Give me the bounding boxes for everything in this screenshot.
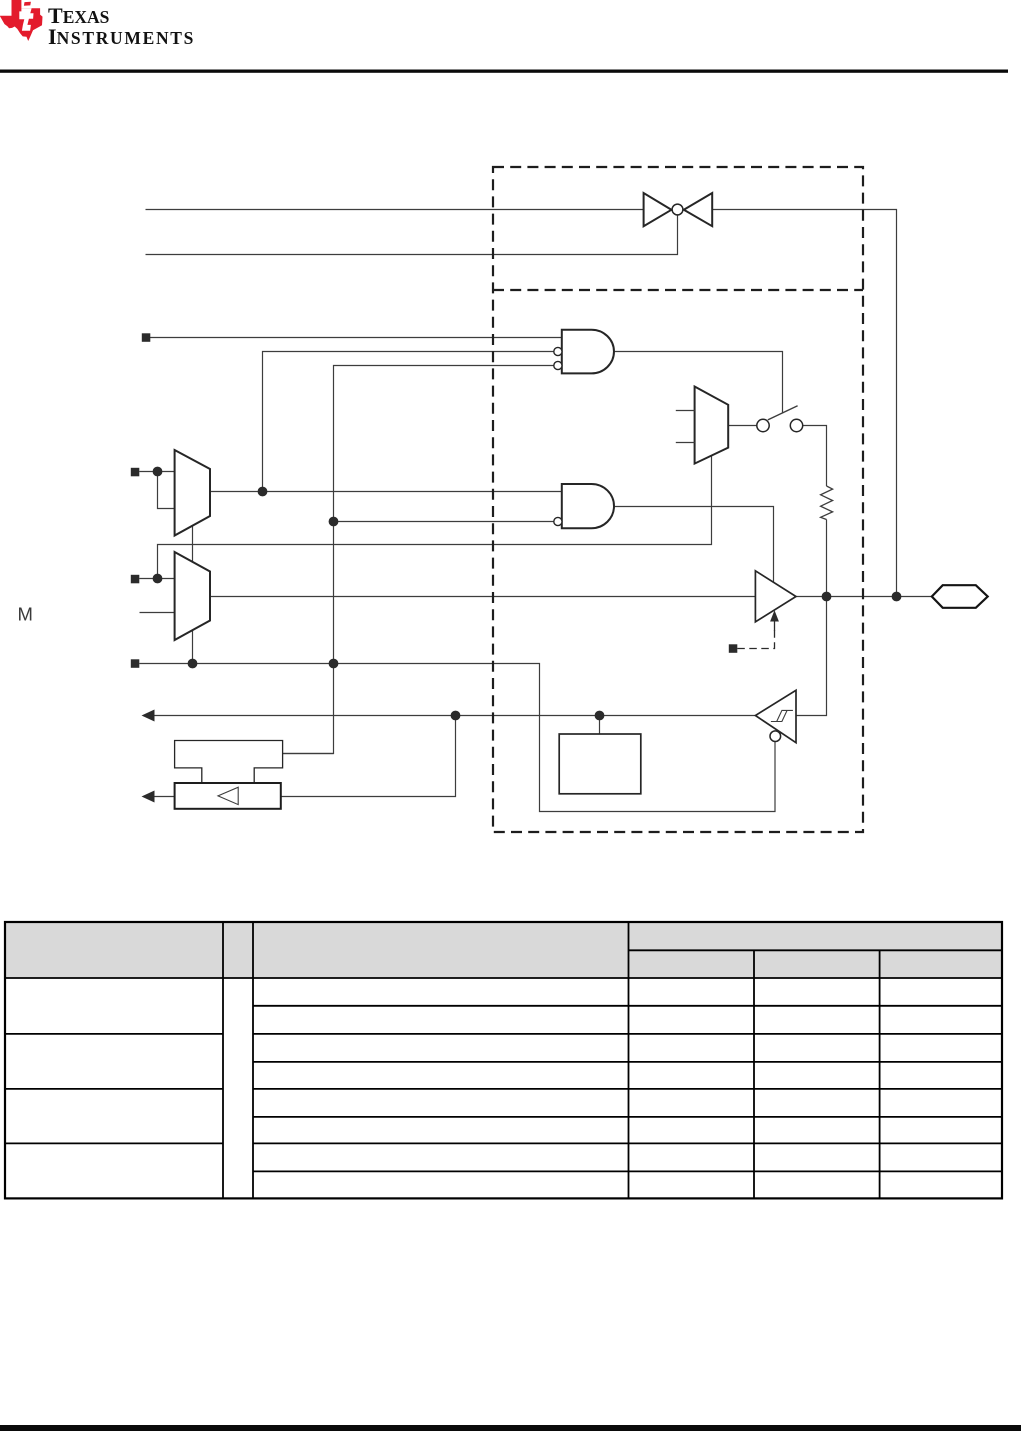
wire block B2 input from net D [281,716,456,797]
block B2 [175,783,281,809]
node block B3 tap [595,711,605,721]
wire AND1 input pin3 vertical net [283,366,554,754]
AND gate AND1 [562,330,614,374]
wire net C from square S3 to inverter control [139,664,775,812]
logo wordmark TEXAS INSTRUMENTS [48,3,195,49]
wire mux M2 select down to net C [192,630,194,664]
block B2 inner triangle [218,787,238,804]
schmitt input buffer U2 [755,690,796,742]
wire square S1 to mux M1 inputs [139,472,174,509]
terminal square S3 [131,659,140,668]
table subline row4 [253,1170,1002,1172]
wire resistor bottom to pad net [826,520,828,597]
pass gate SW1 control bubble [672,204,683,215]
table group line 2 [5,1088,1002,1090]
table group line 3 [5,1142,1002,1144]
AND1 pin2 bubble [554,347,562,355]
node mux M1 ctrl [153,467,163,477]
table header bottom line [5,977,1002,979]
wire schmitt U2 receive line to left arrow [154,715,755,717]
wire M input stub to mux M2 [140,612,175,614]
switch contact circle left [757,419,769,431]
module inner dashed divider [493,289,863,291]
block B3 [559,734,641,794]
left arrowhead receive line [142,710,155,722]
wire AND1 output to switch arm [614,352,783,414]
node mux M1 out [258,487,268,497]
mux M1 [175,450,210,536]
U2 bottom bubble [770,731,781,742]
module boundary dashed box [493,167,863,832]
wire AND1 input pin2 from mux M1 output node [263,352,554,492]
footer rule [0,1425,1021,1431]
TI logo red bug [0,0,43,41]
node pad net b [892,592,902,602]
table vertical col1/col2 [222,922,224,1198]
wire mux M1 output to AND2 pin1 [210,491,562,493]
mux M3 [695,387,729,464]
node net C a [188,659,198,669]
table subheader line [629,949,1003,951]
table subline row3 [253,1116,1002,1118]
mux M2 [175,552,210,640]
junction dots [153,467,902,721]
table subline row2 [253,1061,1002,1063]
node net D [451,711,461,721]
dashed control square S5 [729,644,738,653]
terminal square S4 [142,333,151,342]
left arrowhead B2 line [142,791,155,803]
AND1 pin3 bubble [554,361,562,369]
output buffer U1 [755,571,796,622]
resistor R [821,486,833,520]
wire block B3 stub [599,716,601,735]
wire mux M3 output to contact [728,425,757,427]
control line solid shaft [774,621,776,632]
wire AND2 input pin2 [334,521,554,523]
mux M3 input stub2 [676,442,695,444]
wire contact to resistor [803,426,827,487]
wire net A left segment into pass gate [146,209,644,211]
mux M3 input stub1 [676,410,695,412]
AND2 pin2 bubble [554,517,562,525]
wire block B2 output to left arrow [154,796,175,798]
svg-text:TEXAS: TEXAS [48,3,109,28]
wire net B to pass gate control [146,215,678,254]
node net C b [329,659,339,669]
U2 hysteresis glyph [771,710,793,721]
block B1 T-shape [175,741,283,784]
svg-text:M: M [18,604,33,625]
table vertical col4/col5 [753,950,755,1198]
switch contact circle right [790,419,802,431]
wire buffer U1 output to pad [796,596,932,598]
switch arm [768,406,798,420]
node pad net a [822,592,832,602]
wire mux M2 output to buffer U1 input [210,596,755,598]
table vertical col5/col6 [879,950,881,1198]
table vertical col3/col4 [628,922,630,1198]
terminal square S2 [131,575,140,584]
dashed control line [737,629,774,649]
wire square S2 to mux M2 input [139,578,174,580]
terminal square S1 [131,468,140,477]
wire AND2 output to buffer U1 enable [614,507,774,583]
table header fill [5,922,1002,978]
node mux M2 ctrl [153,574,163,584]
svg-text:INSTRUMENTS: INSTRUMENTS [48,24,195,49]
wire mux M3 select to mux M2 input [158,456,712,579]
table subline row1 [253,1005,1002,1007]
up arrowhead into U1 [770,610,779,621]
wire schmitt U2 output riser to pad net [796,597,827,716]
pass gate SW1 right triangle [684,193,712,226]
wire AND1 input pin1 [150,337,562,339]
pad hexagon [932,585,988,608]
pass gate SW1 left triangle [644,193,672,226]
table group line 1 [5,1033,1002,1035]
node AND2 pin2 [329,517,339,527]
header rule [0,70,1008,73]
AND gate AND2 [562,484,614,528]
wire net A right segment from pass gate to pad node [712,210,896,597]
table outer border [5,922,1002,1198]
wire mux M1 select to mux M2 select [192,525,194,562]
wire block B1 output [283,753,334,755]
table vertical col2/col3 [252,922,254,1198]
